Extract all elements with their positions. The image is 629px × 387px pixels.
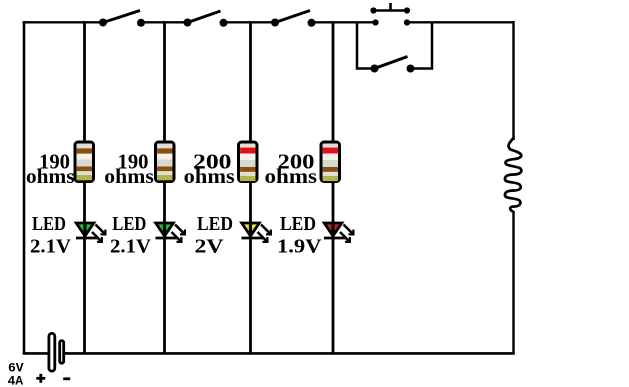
label battery plus: [36, 374, 45, 383]
resistor R2 190 ohms: [156, 142, 175, 182]
wire top rail segment B: [140, 21, 188, 23]
resistor R1 190 ohms: [75, 142, 94, 182]
svg-text:2.1V: 2.1V: [30, 236, 72, 258]
wire branch 1: [83, 21, 86, 354]
switch S2: [184, 11, 228, 27]
battery BT1: [49, 333, 64, 371]
push button PB1: [370, 3, 410, 26]
svg-text:ohms: ohms: [265, 164, 318, 188]
wire branch 3: [249, 21, 252, 354]
svg-text:ohms: ohms: [184, 164, 235, 188]
wire top rail segment C: [223, 21, 277, 23]
wire right vertical lower: [512, 211, 514, 355]
label battery minus: [63, 377, 70, 380]
wire right vertical upper: [512, 21, 514, 140]
svg-text:2V: 2V: [195, 236, 225, 258]
svg-text:LED: LED: [112, 213, 146, 235]
switch S1: [99, 11, 145, 27]
svg-text:1.9V: 1.9V: [277, 236, 322, 258]
wire top rail segment A: [23, 21, 104, 23]
LED D3 (yellow): [242, 222, 271, 242]
svg-text:ohms: ohms: [104, 164, 154, 188]
svg-text:4A: 4A: [8, 374, 24, 387]
wire bypass left drop: [357, 22, 372, 69]
inductor L1: [505, 138, 521, 212]
LED D4 (red): [324, 222, 353, 242]
resistor R4 200 ohms: [321, 142, 340, 182]
wire bypass right riser: [412, 22, 432, 69]
wire left vertical: [23, 21, 26, 355]
wire branch 4: [332, 21, 335, 354]
svg-text:LED: LED: [197, 213, 233, 235]
wire bottom rail right: [65, 352, 515, 355]
LED D1 (green): [76, 222, 105, 242]
svg-text:LED: LED: [32, 213, 66, 235]
resistor R3 200 ohms: [239, 142, 258, 182]
wire top rail segment D: [311, 21, 378, 23]
wire top rail segment E: [405, 21, 514, 23]
switch S3: [271, 11, 316, 27]
svg-text:2.1V: 2.1V: [110, 236, 152, 258]
wire branch 2: [163, 21, 166, 354]
svg-text:LED: LED: [280, 213, 316, 235]
wire bottom rail left: [23, 352, 49, 355]
LED D2 (green): [156, 222, 185, 242]
switch S4: [371, 57, 415, 73]
svg-text:ohms: ohms: [26, 164, 75, 188]
